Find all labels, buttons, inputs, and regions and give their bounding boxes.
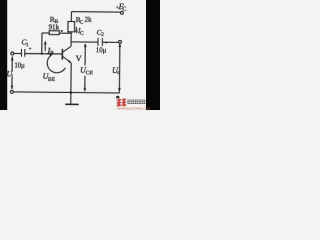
svg-text:BE: BE <box>48 77 56 83</box>
svg-text:2: 2 <box>101 32 104 38</box>
svg-text:2k: 2k <box>85 16 93 24</box>
svg-text:10μ: 10μ <box>96 48 107 55</box>
svg-text:CE: CE <box>86 70 94 76</box>
svg-text:C: C <box>80 31 84 37</box>
svg-text:C: C <box>79 20 83 26</box>
svg-text:+: + <box>105 41 108 46</box>
svg-text:+: + <box>29 47 32 52</box>
svg-text:V: V <box>76 54 82 63</box>
svg-text:91k: 91k <box>48 23 59 31</box>
svg-text:WWW.ELECFANS.COM: WWW.ELECFANS.COM <box>117 106 150 110</box>
svg-text:o: o <box>117 70 120 76</box>
svg-text:C: C <box>122 7 126 13</box>
svg-text:B: B <box>50 50 54 56</box>
svg-text:10μ: 10μ <box>14 62 25 69</box>
